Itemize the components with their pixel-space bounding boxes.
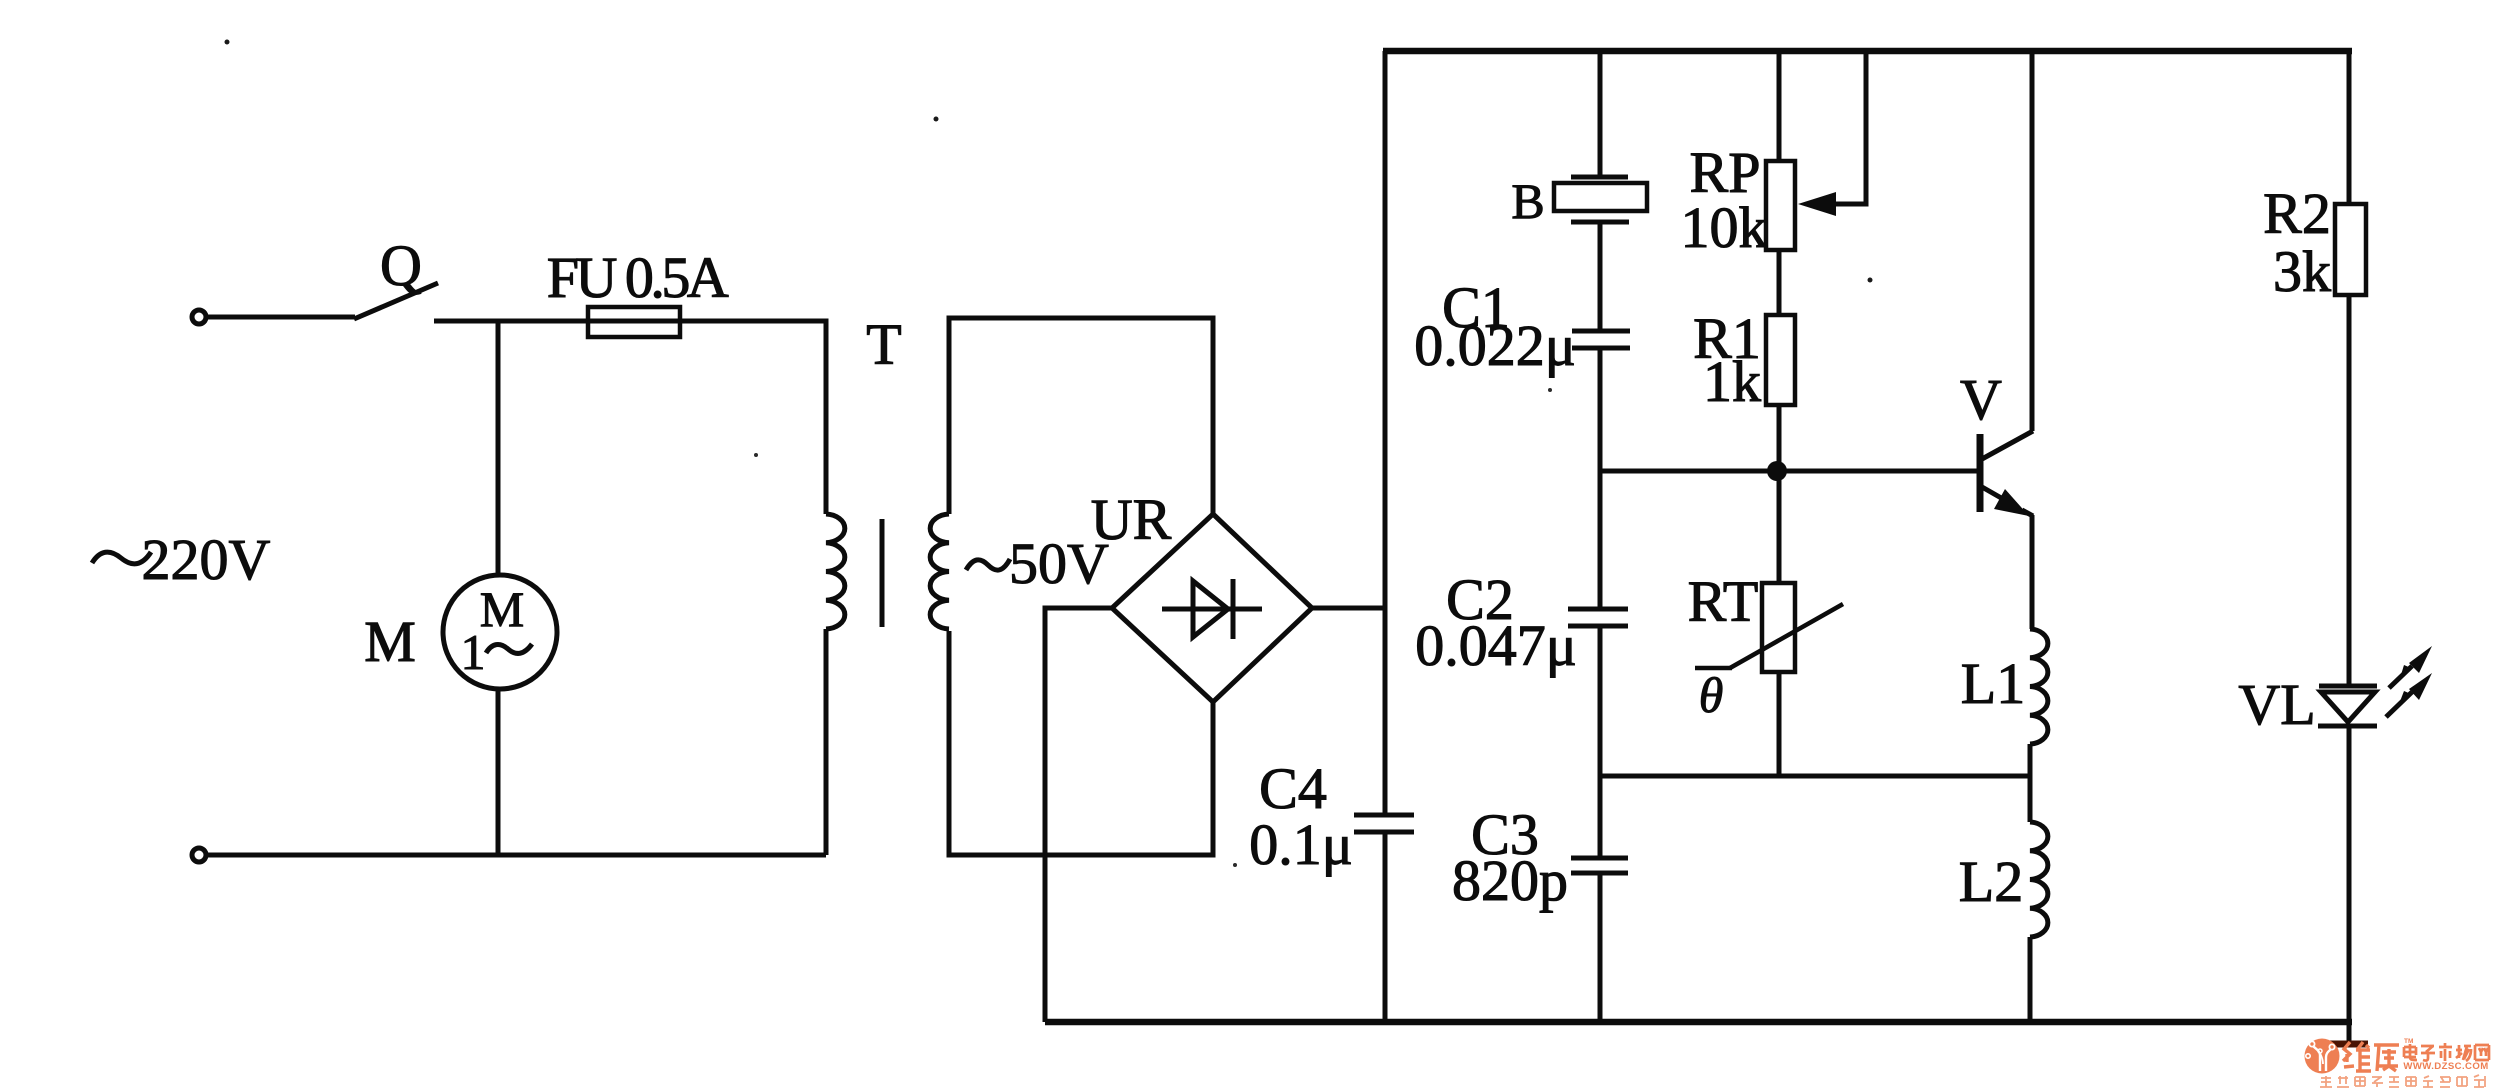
potentiometer RP	[1766, 161, 1795, 250]
LED VL cathode bar	[2318, 724, 2377, 729]
wire secondary top	[949, 318, 1213, 516]
svg-text:1k: 1k	[1703, 349, 1761, 414]
R2 line	[2347, 51, 2352, 204]
watermark big characters 维库	[2343, 1042, 2399, 1071]
svg-text:RT: RT	[1688, 569, 1759, 634]
watermark bottom slogan	[2320, 1075, 2485, 1087]
svg-text:Q: Q	[380, 233, 422, 298]
transformer secondary coil	[930, 514, 949, 629]
top rail	[1383, 48, 2352, 55]
wire bottom left	[207, 853, 826, 858]
svg-text:0.047μ: 0.047μ	[1415, 613, 1577, 678]
wire bridge left vertex down	[1045, 608, 1112, 1022]
bottom rail	[1045, 1019, 2352, 1026]
svg-text:B: B	[1511, 173, 1544, 229]
terminal bar bottom	[2326, 1041, 2368, 1048]
motor M circle	[443, 575, 557, 689]
resistor R1	[1766, 315, 1795, 405]
transformer core	[880, 519, 885, 627]
bridge diode line	[1162, 607, 1262, 612]
wire	[1598, 348, 1603, 609]
wire	[207, 315, 355, 320]
svg-text:TM: TM	[2404, 1038, 2413, 1045]
inductor L2	[2030, 822, 2048, 937]
capacitor C4	[1354, 813, 1414, 818]
svg-text:M: M	[364, 609, 416, 674]
wire	[434, 321, 826, 514]
svg-text:V: V	[1960, 367, 2002, 432]
wire secondary bottom	[949, 631, 1213, 855]
wire	[1598, 224, 1603, 331]
svg-text:0.1μ: 0.1μ	[1249, 812, 1353, 877]
bridge rectifier UR diamond	[1112, 514, 1312, 702]
buzzer B line	[1598, 54, 1603, 177]
label ~220V	[92, 552, 151, 564]
svg-text:1: 1	[461, 624, 486, 680]
mid wire	[1600, 774, 2030, 779]
RP wiper arrow	[1812, 54, 1866, 204]
wire	[1598, 626, 1603, 858]
LED VL anode bar	[2319, 684, 2377, 689]
svg-text:θ: θ	[1699, 667, 1724, 723]
transistor V collector	[1982, 431, 2033, 459]
resistor R2	[2335, 204, 2366, 295]
svg-text:WWW.DZSC.COM: WWW.DZSC.COM	[2403, 1061, 2488, 1072]
LED VL triangle	[2321, 692, 2375, 722]
svg-text:UR: UR	[1091, 487, 1172, 552]
watermark medium characters 电子市场网	[2404, 1043, 2489, 1061]
wire	[2028, 744, 2033, 822]
transformer T primary coil	[826, 514, 845, 629]
label ~50V	[966, 559, 1010, 570]
wire bridge right vertex	[1312, 606, 1386, 611]
svg-text:3k: 3k	[2273, 239, 2331, 304]
buzzer B	[1571, 175, 1628, 180]
terminal top input	[192, 310, 206, 324]
bridge diode triangle	[1193, 581, 1228, 637]
wire	[2347, 295, 2352, 686]
wire	[2028, 937, 2033, 1022]
capacitor C1	[1572, 329, 1630, 334]
svg-text:220V: 220V	[142, 527, 271, 592]
svg-text:0.022μ: 0.022μ	[1414, 313, 1576, 378]
wire LED to rail	[2347, 726, 2352, 1046]
wire	[1777, 405, 1782, 467]
capacitor C3	[1571, 856, 1628, 861]
potentiometer RP line	[1777, 54, 1782, 161]
wire primary bottom	[824, 629, 829, 855]
svg-text:10k: 10k	[1681, 195, 1768, 260]
thermistor RT	[1762, 583, 1795, 672]
capacitor C2	[1568, 607, 1628, 612]
wire motor to bottom	[496, 689, 501, 855]
inductor L1	[2030, 629, 2048, 744]
emitter wire	[2030, 515, 2035, 629]
block left line lower	[1383, 832, 1388, 1022]
collector wire	[2030, 54, 2035, 431]
svg-text:L1: L1	[1961, 651, 2025, 716]
svg-text:R2: R2	[2263, 181, 2331, 246]
svg-text:FU 0.5A: FU 0.5A	[547, 245, 729, 310]
block left line upper	[1383, 51, 1388, 815]
LED emission arrow 2	[2386, 692, 2412, 717]
wire	[1777, 476, 1782, 583]
wire	[1598, 873, 1603, 1022]
svg-text:T: T	[866, 312, 901, 377]
svg-text:VL: VL	[2238, 672, 2315, 737]
switch Q	[354, 283, 438, 319]
transistor V emitter	[1982, 487, 2010, 503]
terminal bottom input	[192, 848, 206, 862]
wire	[1777, 672, 1782, 776]
svg-text:M: M	[480, 581, 524, 637]
fuse FU 0.5A	[588, 307, 680, 337]
wire	[1777, 250, 1782, 315]
LED emission arrow 1	[2389, 666, 2412, 688]
svg-text:820p: 820p	[1452, 848, 1568, 913]
watermark logo circle	[2305, 1039, 2340, 1074]
node A : motor branch	[496, 321, 501, 575]
node junction dot	[1767, 461, 1787, 481]
base wire	[1600, 469, 1977, 474]
bridge diode cathode bar	[1231, 579, 1236, 639]
svg-text:L2: L2	[1959, 849, 2023, 914]
transistor V base bar	[1977, 434, 1984, 512]
